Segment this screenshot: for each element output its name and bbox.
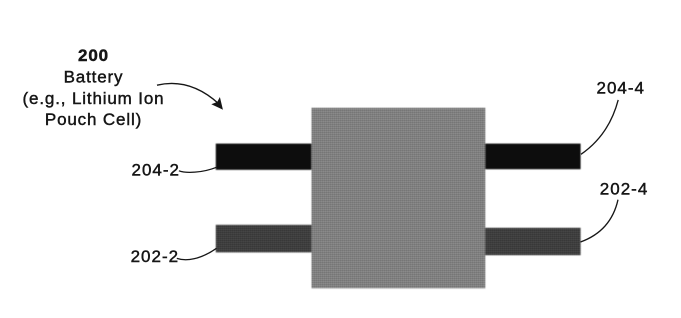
svg-text:200: 200 — [78, 46, 109, 65]
tab 204-4 (right positive tab, black) — [483, 144, 581, 170]
tab 204-2 (left positive tab, black) — [216, 144, 314, 170]
arrowhead — [213, 98, 223, 108]
arrow from label 200 to battery body — [157, 83, 219, 104]
svg-text:202-2: 202-2 — [131, 247, 179, 266]
tab 202-4 (right negative tab, dark gray halftone) — [483, 228, 581, 255]
leader from 202-2 to left gray tab — [177, 248, 217, 259]
tab 202-2 (left negative tab, dark gray halftone) — [216, 225, 314, 253]
svg-text:(e.g., Lithium Ion: (e.g., Lithium Ion — [23, 89, 165, 108]
leader from 204-2 to left black tab — [179, 167, 217, 172]
leader from 204-4 to right black tab — [581, 100, 618, 154]
svg-text:Battery: Battery — [64, 67, 124, 86]
leader from 202-4 to right gray tab — [581, 200, 619, 242]
battery body 200 (gray halftone pouch) — [312, 108, 486, 288]
svg-text:Pouch Cell): Pouch Cell) — [45, 110, 142, 129]
svg-text:202-4: 202-4 — [600, 180, 648, 199]
svg-text:204-4: 204-4 — [597, 79, 645, 98]
svg-text:204-2: 204-2 — [132, 160, 180, 179]
